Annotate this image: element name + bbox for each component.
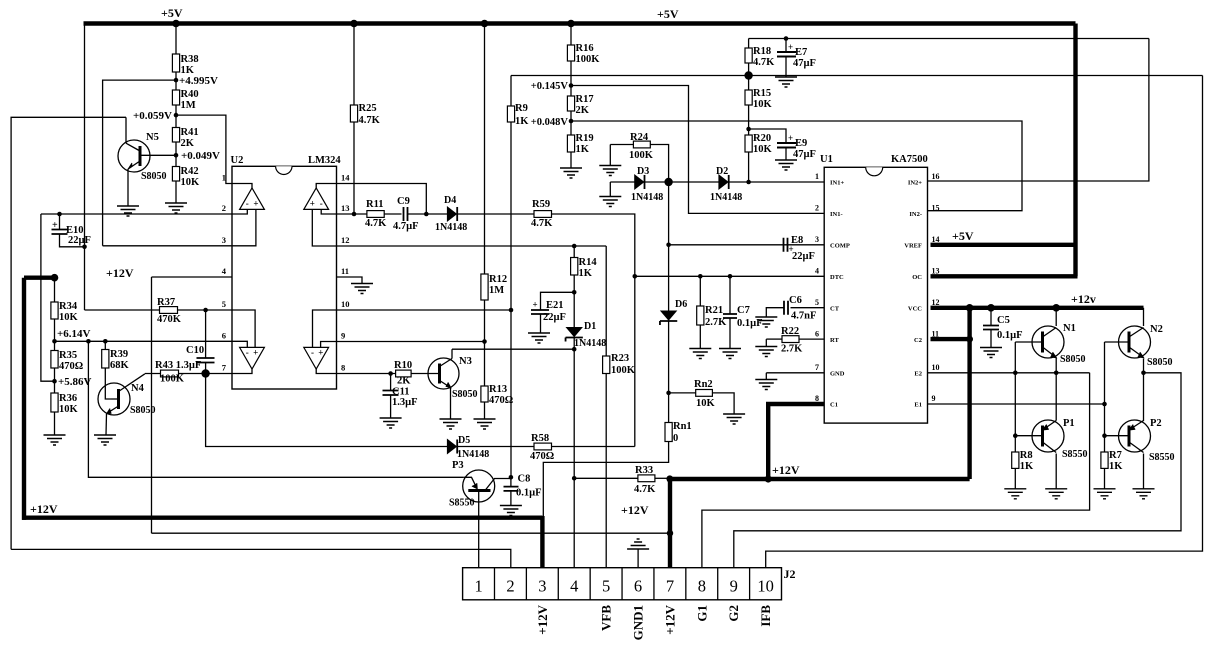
junction R12/R13/pin9	[482, 339, 487, 344]
svg-text:100K: 100K	[629, 150, 654, 161]
wire VCC +12v bus	[931, 306, 1144, 310]
wire C1 pin stub	[766, 402, 824, 406]
ground R42	[165, 203, 187, 213]
svg-text:S8550: S8550	[1062, 449, 1088, 460]
svg-text:+: +	[253, 199, 258, 209]
svg-text:8: 8	[815, 394, 819, 403]
svg-text:R25: R25	[359, 103, 377, 114]
op-amp U2D	[304, 347, 329, 369]
wire R9/IFB line	[511, 75, 1203, 77]
junction E21	[572, 290, 577, 295]
svg-text:1K: 1K	[1109, 461, 1123, 472]
node pin5/C10	[203, 308, 208, 313]
wire R34 to R35	[54, 319, 56, 351]
ground C7	[719, 349, 741, 359]
svg-text:E1: E1	[914, 402, 922, 409]
svg-text:N3: N3	[459, 356, 472, 367]
svg-text:100K: 100K	[160, 374, 185, 385]
junction	[172, 20, 180, 28]
svg-text:+0.049V: +0.049V	[181, 150, 220, 162]
junction R33/+12V	[666, 475, 673, 482]
ground Rn2	[723, 414, 745, 424]
wire U2 pin12 line	[337, 245, 607, 247]
wire R18 node to IN2+ loop	[749, 38, 1149, 40]
svg-text:+12V: +12V	[30, 502, 58, 516]
wire P2 collector to ground	[1143, 454, 1145, 489]
wire U2 pin8 line	[337, 373, 396, 375]
junction R39 top	[103, 339, 108, 344]
svg-text:S8050: S8050	[141, 171, 167, 182]
svg-text:R10: R10	[394, 360, 412, 371]
wire U2 pin5 line with R37	[85, 309, 233, 311]
svg-text:R9: R9	[515, 103, 528, 114]
resistor R36	[51, 393, 58, 412]
junction	[481, 20, 489, 28]
svg-text:+5V: +5V	[657, 7, 679, 21]
svg-text:R41: R41	[181, 127, 199, 138]
svg-text:5: 5	[815, 298, 819, 307]
svg-text:+: +	[788, 133, 793, 143]
svg-text:3: 3	[222, 235, 226, 245]
ground U1 GND	[755, 380, 777, 390]
resistor R21	[697, 306, 704, 325]
svg-text:0: 0	[673, 433, 678, 444]
node +0.145V	[569, 83, 574, 88]
wire N4 emitter	[105, 414, 108, 435]
svg-text:R42: R42	[181, 166, 199, 177]
svg-text:P2: P2	[1150, 418, 1162, 429]
wire RT ground stub	[765, 339, 767, 346]
svg-text:14: 14	[341, 173, 350, 183]
svg-text:11: 11	[341, 266, 349, 276]
wire R21 top	[699, 276, 701, 306]
junction	[350, 20, 358, 28]
wire C11 to ground	[390, 395, 392, 418]
resistor R22	[782, 336, 799, 343]
junction DTC/R59 rail	[633, 274, 638, 279]
wire pin12 to R23	[605, 246, 607, 356]
capacitor C10	[197, 358, 215, 363]
svg-text:R18: R18	[753, 46, 771, 57]
wire N1 collector	[1055, 308, 1057, 326]
svg-text:Rn1: Rn1	[673, 421, 692, 432]
wire C5 to ground	[990, 330, 992, 348]
connector J2	[463, 568, 782, 600]
wire +12V to J2 pin7	[668, 477, 672, 568]
svg-text:C8: C8	[518, 474, 531, 485]
transistor N5	[118, 140, 150, 172]
svg-text:E21: E21	[546, 300, 564, 311]
svg-text:P3: P3	[452, 460, 464, 471]
svg-text:R59: R59	[532, 199, 550, 210]
wire R33 right	[655, 477, 668, 479]
svg-text:1N4148: 1N4148	[574, 338, 606, 349]
wire R22 to chip	[799, 338, 824, 340]
svg-text:G2: G2	[726, 605, 741, 622]
resistor Rn1	[665, 423, 672, 442]
svg-text:S8050: S8050	[1147, 357, 1173, 368]
junction C8/P3	[509, 475, 514, 480]
svg-text:R7: R7	[1109, 450, 1122, 461]
resistor R38	[172, 54, 179, 72]
wire N3 collector to D1 rail	[452, 348, 574, 350]
junction P1 base	[1013, 433, 1018, 438]
resistor R24	[633, 141, 650, 148]
svg-text:KA7500: KA7500	[891, 154, 928, 165]
wire R41 to R42	[175, 142, 177, 167]
svg-text:3: 3	[538, 577, 546, 596]
wire U2B inverting input	[321, 209, 336, 214]
wire D3 anode to ground	[609, 182, 611, 197]
svg-text:13: 13	[932, 266, 940, 275]
wire R59 to DTC drop	[552, 214, 635, 447]
svg-text:-: -	[311, 348, 314, 358]
diode D2	[719, 175, 728, 189]
svg-text:R14: R14	[579, 257, 598, 268]
wire N5 emitter down	[127, 169, 129, 206]
svg-text:8: 8	[341, 363, 345, 373]
wire GND stub	[765, 373, 767, 380]
wire D5 to R58	[458, 446, 535, 448]
wire R18 to node	[748, 63, 750, 90]
svg-text:3: 3	[815, 235, 819, 244]
wire R14 to D1	[573, 275, 575, 327]
svg-text:1: 1	[222, 173, 226, 183]
node +0.048V	[569, 119, 574, 124]
wire C2 stub	[931, 337, 970, 341]
op-amp U2C	[240, 347, 265, 369]
svg-text:R22: R22	[781, 326, 799, 337]
ground R36	[44, 435, 66, 445]
svg-text:E9: E9	[795, 138, 807, 149]
wire G2 loop to J2 pin9	[734, 373, 1181, 568]
svg-text:1K: 1K	[576, 144, 590, 155]
wire pin4 drop	[151, 277, 153, 533]
junction	[567, 20, 575, 28]
wire OC to bus	[931, 274, 1078, 278]
svg-text:E2: E2	[914, 370, 922, 377]
svg-text:+0.048V: +0.048V	[531, 117, 569, 128]
svg-text:R38: R38	[181, 54, 199, 65]
svg-text:P1: P1	[1063, 418, 1075, 429]
svg-text:S8050: S8050	[1060, 354, 1086, 365]
wire J2 pin6 ground stub	[637, 549, 639, 568]
svg-text:G1: G1	[694, 605, 709, 622]
svg-text:U2: U2	[231, 155, 244, 166]
capacitor E8	[784, 238, 788, 252]
svg-text:R17: R17	[576, 94, 594, 105]
wire C6 to ground	[766, 308, 784, 317]
wire C9 to D4 junction	[408, 213, 427, 215]
svg-text:C2: C2	[914, 337, 922, 344]
wire Rn1 to +12V rail	[543, 442, 668, 518]
svg-text:+: +	[310, 199, 315, 209]
svg-text:8: 8	[698, 577, 706, 596]
resistor R42	[172, 167, 179, 182]
wire U2 pin4 line	[152, 276, 233, 278]
junction R15/R20/E9	[746, 127, 751, 132]
wire U2D inverting input	[313, 310, 337, 347]
wire C11 top lead	[390, 374, 392, 391]
svg-text:-: -	[320, 199, 323, 209]
wire E2 line	[928, 372, 1090, 374]
capacitor C6	[784, 301, 788, 315]
junction C11	[388, 371, 393, 376]
wire R9 top	[510, 76, 512, 107]
resistor R13	[481, 386, 488, 402]
svg-text:+4.995V: +4.995V	[179, 75, 218, 87]
wire N3 collector up	[451, 349, 453, 358]
svg-text:DTC: DTC	[830, 274, 844, 281]
svg-text:R12: R12	[489, 274, 507, 285]
svg-text:R23: R23	[611, 353, 629, 364]
wire R11 to C9	[384, 213, 401, 215]
wire N1 emitter	[1055, 358, 1057, 373]
svg-text:N4: N4	[131, 383, 145, 394]
wire N5 collector to left rail	[11, 117, 126, 549]
wire +12V mid horizontal	[667, 477, 970, 481]
svg-text:C6: C6	[789, 295, 802, 306]
ground N5	[117, 206, 139, 216]
svg-text:22µF: 22µF	[792, 251, 815, 262]
ground N3	[440, 419, 462, 429]
wire to R34	[54, 278, 56, 302]
resistor R20	[745, 135, 752, 152]
svg-text:10K: 10K	[181, 177, 201, 188]
svg-text:5: 5	[602, 577, 610, 596]
wire +12V riser to C1	[766, 404, 770, 479]
capacitor C8	[504, 487, 519, 491]
svg-text:+5V: +5V	[952, 229, 974, 243]
svg-text:0.1µF: 0.1µF	[997, 330, 1023, 341]
wire bus to R12	[484, 24, 486, 275]
wire to E21	[541, 292, 575, 310]
wire N2 collector	[1143, 308, 1145, 326]
junction E1/N2 base rail	[1102, 402, 1107, 407]
svg-text:R15: R15	[753, 88, 771, 99]
wire pin4 to +12V junction	[152, 532, 671, 534]
svg-text:U1: U1	[820, 154, 833, 165]
svg-text:2K: 2K	[576, 105, 590, 116]
junction R18/R15	[744, 71, 752, 79]
resistor R17	[567, 96, 574, 111]
svg-text:S8050: S8050	[130, 405, 156, 416]
wire R35 to R36	[54, 368, 56, 393]
svg-text:4.7K: 4.7K	[531, 218, 553, 229]
wire D6 to Rn1	[668, 321, 670, 423]
wire junction to R13	[484, 342, 486, 387]
svg-text:-: -	[246, 348, 249, 358]
svg-text:R37: R37	[157, 297, 175, 308]
transistor N2	[1119, 326, 1151, 358]
wire loop to U1 pin16	[928, 39, 1149, 182]
svg-text:100K: 100K	[576, 54, 601, 65]
svg-text:10K: 10K	[753, 144, 773, 155]
svg-text:+: +	[788, 42, 793, 52]
wire U2 pin10 line	[337, 309, 512, 311]
wire N5 rail to J2 pin2	[11, 549, 511, 567]
svg-text:14: 14	[932, 235, 940, 244]
svg-text:D4: D4	[444, 195, 456, 206]
svg-text:R19: R19	[576, 133, 594, 144]
svg-text:2.7K: 2.7K	[781, 344, 803, 355]
svg-text:2K: 2K	[181, 138, 195, 149]
wire +12V left vertical	[22, 278, 26, 520]
wire R13 to ground	[484, 402, 486, 419]
ground GND1	[627, 539, 649, 549]
resistor R7	[1101, 452, 1108, 468]
wire U2 pin7 line	[145, 373, 232, 375]
wire D2 to U1 IN1+	[729, 181, 824, 183]
ground C6	[755, 317, 777, 327]
svg-text:0.1µF: 0.1µF	[516, 488, 542, 499]
wire R10 to N3 base	[411, 373, 438, 375]
wire E7 top lead	[785, 39, 787, 53]
wire pin14 to junction	[337, 184, 427, 215]
svg-text:C10: C10	[186, 345, 204, 356]
wire N1 base rail down	[1014, 342, 1016, 452]
resistor R33	[638, 475, 655, 482]
op-amp U2B	[304, 188, 329, 209]
svg-text:2K: 2K	[397, 376, 411, 387]
wire R16 to R17	[570, 61, 572, 96]
svg-text:D5: D5	[458, 435, 470, 446]
junction R34 top	[51, 274, 59, 282]
wire U2A inverting input	[232, 209, 247, 214]
wire +12V left horizontal	[22, 516, 542, 520]
junction R9/pin10	[509, 308, 514, 313]
svg-text:0.1µF: 0.1µF	[737, 318, 763, 329]
wire U2C output to pin7	[232, 369, 252, 374]
resistor R10	[396, 370, 412, 377]
wire U2 pin11 to ground	[337, 277, 363, 284]
svg-text:Rn2: Rn2	[694, 379, 713, 390]
wire +0.145V to U1 IN1-	[571, 86, 824, 214]
svg-text:10: 10	[341, 299, 350, 309]
svg-text:1N4148: 1N4148	[631, 192, 663, 203]
junction +12V/pin4 wire	[667, 530, 673, 536]
junction C2/12V rail	[966, 336, 973, 343]
junction P2 base	[1102, 433, 1107, 438]
wire U2B output to pin14	[316, 184, 336, 189]
svg-text:R13: R13	[489, 384, 507, 395]
wire E1 line	[928, 403, 1105, 405]
svg-text:R21: R21	[705, 305, 723, 316]
svg-text:+12v: +12v	[1071, 292, 1096, 306]
wire C7 to ground	[729, 318, 731, 349]
wire U2 pin3 line	[103, 245, 232, 247]
ground R22	[755, 347, 777, 357]
svg-text:IN1+: IN1+	[830, 180, 844, 187]
svg-text:4: 4	[815, 266, 819, 275]
svg-text:2: 2	[506, 577, 514, 596]
wire U2 pin2 line	[41, 213, 232, 215]
capacitor C7	[723, 314, 737, 318]
ground E21	[528, 333, 550, 343]
wire N3 emitter	[450, 388, 452, 420]
wire D4 to R59	[458, 213, 535, 215]
wire R15 to R20	[748, 105, 750, 135]
junction R14 top	[572, 244, 577, 249]
wire R24 to ground	[609, 145, 611, 166]
svg-text:C1: C1	[830, 402, 838, 409]
diode D5	[447, 439, 456, 453]
svg-text:+12V: +12V	[535, 604, 550, 634]
wire C5 top	[990, 308, 992, 326]
resistor Rn2	[696, 390, 713, 397]
wire D3 anode	[610, 181, 634, 183]
svg-text:16: 16	[932, 172, 940, 181]
wire Rn2 to ground	[712, 393, 734, 414]
resistor R58	[534, 443, 552, 450]
svg-text:+12V: +12V	[621, 503, 649, 517]
wire COMP line	[669, 244, 825, 246]
svg-text:9: 9	[730, 577, 738, 596]
ground R19	[560, 168, 582, 178]
svg-text:1N4148: 1N4148	[457, 449, 489, 460]
capacitor E7	[777, 52, 796, 57]
svg-text:+12V: +12V	[772, 463, 800, 477]
svg-text:4.7K: 4.7K	[634, 484, 656, 495]
svg-text:1.3µF: 1.3µF	[392, 397, 418, 408]
junction E10/rail	[82, 245, 87, 250]
wire R9 to C8 node	[510, 122, 512, 476]
svg-text:N5: N5	[146, 132, 159, 143]
svg-text:+12V: +12V	[662, 604, 677, 634]
wire pin2 to +5.86V node	[41, 214, 55, 381]
svg-text:S8550: S8550	[1149, 452, 1175, 463]
junction R33 line	[572, 476, 577, 481]
transistor N1	[1032, 326, 1064, 358]
ground U2 pin11	[351, 284, 373, 294]
svg-text:C9: C9	[397, 196, 410, 207]
resistor R37	[160, 307, 178, 314]
svg-text:COMP: COMP	[830, 242, 850, 249]
node E10 top	[57, 212, 62, 217]
svg-text:10K: 10K	[59, 312, 79, 323]
diode D6	[661, 311, 676, 320]
wire R14 top lead	[573, 246, 575, 258]
wire bus to R38	[175, 24, 177, 55]
svg-text:R24: R24	[630, 132, 649, 143]
wire pin13 to R11	[337, 213, 367, 215]
ground N4	[94, 435, 116, 445]
svg-text:6: 6	[222, 330, 226, 340]
wire R24 to D3 junction	[650, 145, 668, 183]
wire U2D noninverting input	[321, 342, 337, 348]
wire D3 to D2	[645, 181, 719, 183]
svg-text:+12V: +12V	[106, 266, 134, 280]
svg-text:+0.059V: +0.059V	[133, 110, 172, 122]
svg-text:100K: 100K	[611, 365, 636, 376]
svg-text:IN1-: IN1-	[830, 211, 843, 218]
svg-text:11: 11	[932, 329, 940, 338]
junction C7	[728, 274, 733, 279]
wire R58 to rail	[552, 446, 635, 448]
wire +0.059V to U2 pin1	[176, 115, 232, 183]
svg-text:10K: 10K	[59, 404, 79, 415]
wire E9 top lead	[749, 129, 786, 143]
junction E2/N1 base rail	[1013, 371, 1018, 376]
svg-text:VREF: VREF	[904, 242, 922, 249]
svg-text:N2: N2	[1150, 324, 1163, 335]
wire bus to R25/pin13	[353, 24, 355, 215]
op-amp U2 LM324 chip body	[232, 166, 337, 389]
svg-text:470Ω: 470Ω	[59, 361, 83, 372]
junction N1 emitter	[1054, 371, 1059, 376]
resistor R18	[745, 48, 752, 63]
junction N2 emitter/G2	[1141, 371, 1146, 376]
